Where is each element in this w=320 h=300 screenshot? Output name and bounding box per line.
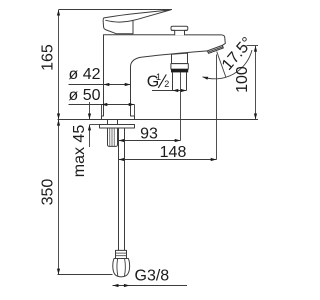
svg-text:G3/8: G3/8 xyxy=(135,268,170,285)
svg-text:93: 93 xyxy=(140,126,158,143)
svg-text:100: 100 xyxy=(234,66,251,93)
svg-text:165: 165 xyxy=(40,44,57,71)
svg-text:ø 50: ø 50 xyxy=(68,87,100,104)
svg-text:2: 2 xyxy=(164,79,169,89)
svg-text:ø 42: ø 42 xyxy=(68,66,100,83)
svg-text:350: 350 xyxy=(40,179,57,206)
svg-text:max 45: max 45 xyxy=(71,125,88,178)
svg-text:1: 1 xyxy=(156,72,161,82)
svg-text:148: 148 xyxy=(160,144,187,161)
